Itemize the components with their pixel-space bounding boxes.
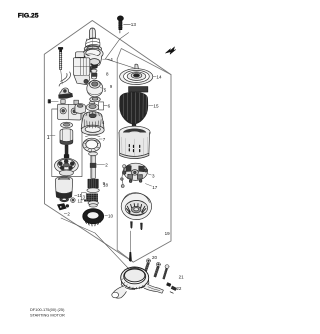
boxed label <box>99 102 108 110</box>
end cap screws <box>131 222 143 230</box>
bolt 2 (left long bolt) <box>58 47 62 69</box>
svg-text:21: 21 <box>179 275 185 280</box>
bolt 2 leader <box>61 70 63 84</box>
svg-text:15: 15 <box>153 104 159 109</box>
commutator label leader <box>105 214 108 216</box>
label 15 leader <box>149 104 153 106</box>
washer in box <box>61 122 73 128</box>
clamp bolt a <box>144 259 151 274</box>
outer border <box>44 21 171 263</box>
washer below yoke <box>60 197 69 201</box>
svg-text:2: 2 <box>67 211 70 216</box>
washer ring 14 <box>120 64 153 84</box>
label 14 leader <box>153 75 156 77</box>
direction arrow <box>166 47 176 55</box>
label 1 leader <box>50 135 55 137</box>
motor yoke assembled <box>55 176 72 199</box>
drive pinion assembly <box>83 28 103 68</box>
svg-text:1: 1 <box>47 135 50 141</box>
inner panel left edge <box>117 59 133 262</box>
cup label leader <box>100 87 103 88</box>
brush holder 17 <box>123 163 148 182</box>
svg-text:14: 14 <box>156 75 162 80</box>
label 17 leader <box>145 184 151 186</box>
shift lever <box>59 72 73 98</box>
svg-text:4: 4 <box>102 120 105 125</box>
washers under gear <box>88 201 98 207</box>
end cap 19 <box>121 193 151 220</box>
svg-text:5: 5 <box>104 88 107 93</box>
plunger in box <box>60 129 73 145</box>
pinion label leader <box>103 58 110 60</box>
brush screws left <box>121 165 126 188</box>
bolt 12 leader <box>51 101 59 103</box>
svg-text:STARTING MOTOR: STARTING MOTOR <box>30 313 65 318</box>
bottom black bracket <box>57 204 68 210</box>
svg-text:13: 13 <box>131 22 137 27</box>
label 2 bottom <box>64 213 67 215</box>
svg-text:2: 2 <box>105 162 108 167</box>
roller clutch in box <box>55 158 79 176</box>
worm gear block 1 <box>88 179 98 188</box>
label 13 leader <box>124 23 131 25</box>
svg-text:9: 9 <box>110 84 113 89</box>
clamp arm <box>112 286 127 298</box>
washer under ring <box>89 152 98 156</box>
collar spring (below pinion) <box>91 69 97 79</box>
label 11 leader <box>75 194 77 196</box>
leader arrowhead <box>129 252 132 262</box>
washer between gears <box>87 188 99 193</box>
internal gear ring <box>83 135 101 152</box>
svg-text:8: 8 <box>106 72 109 77</box>
clamp side bolt <box>163 265 169 280</box>
bolt in box <box>64 145 69 158</box>
clamp strap <box>144 284 163 294</box>
clamp bolt b <box>154 262 160 277</box>
svg-text:19: 19 <box>165 231 171 236</box>
washer under cup <box>90 97 101 102</box>
dome label leader <box>99 138 102 140</box>
armature 15 <box>120 87 148 127</box>
svg-text:DF100-175(00) (25): DF100-175(00) (25) <box>30 307 65 312</box>
leader to clamp vertical <box>129 231 131 252</box>
front bracket dome <box>81 112 104 135</box>
clamp ring <box>121 267 149 289</box>
bolt 12 end view <box>48 100 50 104</box>
inner panel chevron <box>117 49 171 75</box>
svg-text:22: 22 <box>176 286 182 291</box>
svg-text:12: 12 <box>78 199 84 204</box>
svg-text:FIG.25: FIG.25 <box>18 13 39 20</box>
small ring right <box>71 198 76 203</box>
leader to clamp <box>61 218 129 269</box>
svg-text:6: 6 <box>108 103 111 108</box>
bearing cylinder <box>75 104 85 114</box>
svg-text:7: 7 <box>103 137 106 142</box>
solenoid wires <box>84 46 95 55</box>
label 3 leader <box>148 174 152 175</box>
field coil yoke 16 <box>119 126 150 158</box>
commutator ring <box>83 209 104 226</box>
shaft label leader <box>97 163 105 165</box>
worm gear block 2 <box>84 194 97 201</box>
svg-text:17: 17 <box>152 185 158 190</box>
svg-text:20: 20 <box>152 255 158 260</box>
hub gear <box>86 101 99 110</box>
boxed label 3 <box>82 193 87 200</box>
clutch cup <box>87 80 103 96</box>
svg-text:10: 10 <box>108 213 114 218</box>
solenoid cap in box <box>58 100 81 120</box>
solenoid switch <box>73 52 93 85</box>
bolt 13 (top) <box>117 16 123 33</box>
svg-text:3: 3 <box>152 173 155 178</box>
inset box <box>52 109 82 177</box>
leader from bolt through border to washer <box>105 33 133 68</box>
armature shaft <box>90 156 96 179</box>
clamp nut screw <box>167 283 177 294</box>
